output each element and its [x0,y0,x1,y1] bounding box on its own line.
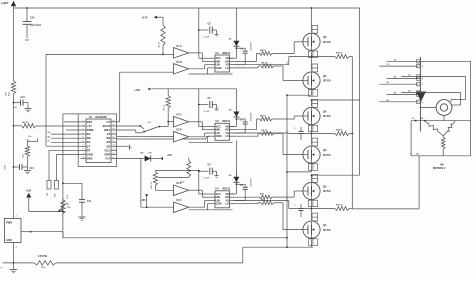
svg-text:PWR: PWR [6,222,12,225]
svg-text:R4 10: R4 10 [260,49,266,52]
svg-text:10n: 10n [13,107,17,109]
svg-text:LO: LO [225,135,229,138]
svg-text:MOTOR1,2: MOTOR1,2 [433,167,446,170]
svg-text:75uF: 75uF [5,164,7,170]
svg-text:+15V: +15V [26,190,32,193]
svg-text:100u/16V: 100u/16V [251,177,253,186]
svg-text:17: 17 [113,133,115,135]
svg-text:OE: OE [106,144,110,148]
svg-text:R7 1k: R7 1k [164,104,166,110]
svg-text:COM: COM [216,67,222,70]
svg-text:13: 13 [113,149,115,151]
svg-text:12: 12 [113,153,115,155]
svg-text:IR2101: IR2101 [222,120,231,123]
svg-text:0.05 5W: 0.05 5W [38,255,48,258]
svg-text:PWM: PWM [87,128,94,132]
svg-text:AB: AB [106,136,110,140]
svg-text:IRF520: IRF520 [323,190,332,193]
svg-text:IR2101: IR2101 [222,188,231,191]
svg-text:+VT: +VT [87,124,92,128]
svg-text:19: 19 [113,124,115,126]
svg-text:SA: SA [87,132,91,136]
svg-text:R5 10: R5 10 [262,63,268,65]
svg-text:1: 1 [83,120,84,122]
svg-text:R3 1k: R3 1k [159,41,161,47]
svg-text:Q4: Q4 [323,109,327,113]
svg-text:14: 14 [113,144,115,147]
svg-text:COM: COM [216,203,222,206]
svg-text:GND: GND [87,152,93,156]
svg-text:U7-F: U7-F [176,199,182,202]
svg-text:10: 10 [83,157,85,159]
svg-text:LO: LO [225,203,229,206]
svg-text:4.7uF: 4.7uF [204,110,210,113]
svg-text:FLT: FLT [105,157,110,161]
svg-text:IRF520: IRF520 [323,229,332,232]
svg-text:U7-C: U7-C [176,114,182,117]
svg-text:IRF520: IRF520 [323,41,332,44]
svg-text:+17V: +17V [142,16,148,20]
svg-text:U7-E: U7-E [176,182,182,185]
svg-text:9: 9 [83,153,84,155]
svg-text:CW: CW [55,194,57,197]
svg-text:+15V: +15V [140,199,146,202]
svg-text:Q2: Q2 [323,184,327,188]
svg-text:R9 10: R9 10 [262,130,268,132]
svg-text:Q1: Q1 [323,223,327,227]
svg-text:SEN: SEN [87,157,93,161]
svg-text:ERR: ERR [105,152,111,156]
svg-text:R13 1k: R13 1k [336,53,344,55]
svg-text:U7-B: U7-B [176,61,182,64]
svg-text:(-): (-) [1,267,3,269]
svg-text:20: 20 [113,120,115,122]
svg-text:C14: C14 [30,17,35,20]
svg-text:100u/16V: 100u/16V [251,112,253,121]
svg-text:4.7uF: 4.7uF [204,36,210,39]
svg-text:SB: SB [87,136,91,140]
svg-text:R6 10: R6 10 [260,116,266,118]
svg-text:15: 15 [113,141,115,143]
svg-text:IRF520: IRF520 [323,115,332,118]
svg-text:R1 1k: R1 1k [23,122,30,124]
svg-text:R17 1k: R17 1k [336,205,344,207]
svg-text:3: 3 [83,128,84,130]
svg-text:SC: SC [87,140,91,144]
svg-text:BT: BT [107,140,111,144]
svg-text:100u/16V: 100u/16V [251,41,253,50]
svg-text:U7-D: U7-D [176,129,182,132]
svg-text:IRF520: IRF520 [323,80,332,83]
svg-text:(+)BAT: (+)BAT [1,2,9,5]
svg-text:R12 1k: R12 1k [151,181,153,189]
svg-text:CT: CT [107,120,111,124]
svg-text:BRA: BRA [104,128,110,132]
svg-text:RT: RT [87,148,91,152]
svg-text:2: 2 [83,124,84,126]
svg-text:IRF520: IRF520 [323,154,332,157]
svg-text:Q6: Q6 [323,35,327,39]
svg-text:U1: U1 [89,115,93,119]
svg-text:4: 4 [83,132,84,135]
svg-text:100u/100V: 100u/100V [30,25,42,27]
svg-text:AT: AT [107,132,111,136]
svg-text:U7-A: U7-A [176,45,182,48]
svg-text:+15V: +15V [134,88,140,92]
svg-text:BAUX: BAUX [103,124,111,128]
svg-text:CT: CT [87,144,91,148]
svg-text:8: 8 [83,149,84,151]
svg-text:IR2101: IR2101 [222,52,231,55]
svg-text:RST: RST [87,120,93,124]
svg-text:Q5: Q5 [323,74,327,78]
svg-text:C11: C11 [87,201,92,203]
svg-text:16: 16 [113,137,115,139]
svg-text:4.7uF: 4.7uF [204,177,210,180]
svg-text:Q3: Q3 [323,148,327,152]
svg-text:MC33035: MC33035 [96,115,108,119]
svg-text:2.2u: 2.2u [67,194,69,199]
svg-text:HB: HB [440,163,444,166]
svg-text:+15V: +15V [167,155,173,157]
svg-text:C13: C13 [21,97,26,99]
svg-text:R14 1k: R14 1k [336,129,344,132]
svg-text:VCC: VCC [105,148,111,152]
svg-text:LO: LO [225,67,229,70]
svg-text:5: 5 [83,137,84,139]
svg-text:11: 11 [113,157,115,159]
svg-text:ON: ON [148,153,152,155]
svg-text:COM: COM [216,135,222,138]
svg-text:6: 6 [83,141,84,143]
svg-text:F/R: F/R [47,192,49,196]
svg-text:GND: GND [6,239,12,242]
svg-text:7: 7 [83,145,84,147]
svg-text:C10: C10 [30,168,35,170]
svg-text:18: 18 [113,128,115,130]
